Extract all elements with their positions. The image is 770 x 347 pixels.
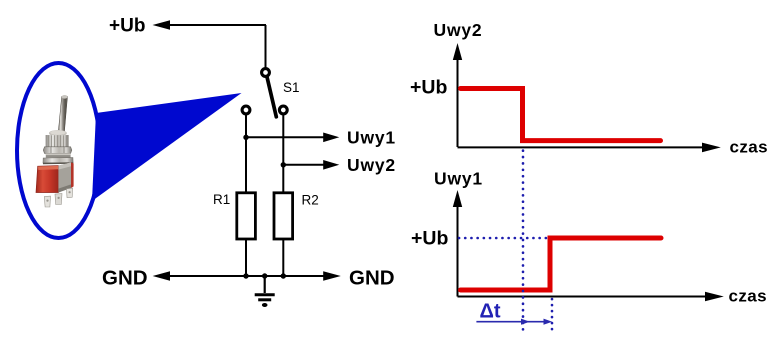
- svg-text:+Ub: +Ub: [410, 77, 447, 99]
- node junction dot GND-center: [262, 273, 267, 278]
- dotted +Ub level line bottom chart: [459, 237, 549, 240]
- dotted timing line t1: [522, 151, 525, 331]
- switch S1 lever: [267, 78, 276, 117]
- wire +Ub feed with arrow: [169, 24, 266, 26]
- red switch body front face: [36, 166, 58, 193]
- node junction dot GND-R1: [243, 273, 248, 278]
- delta-t dimension line with arrows: [476, 321, 549, 323]
- chart Uwy2 red trace: [461, 89, 661, 141]
- switch S1 throw pin right: [279, 106, 287, 114]
- hex nut: [43, 147, 72, 154]
- wire Uwy2 output with arrow: [283, 164, 324, 166]
- resistor R2: [274, 193, 293, 239]
- wire down to switch common: [265, 25, 267, 68]
- chart Uwy1 red trace: [461, 238, 662, 290]
- callout triangle pointer: [92, 93, 242, 201]
- svg-text:GND: GND: [349, 267, 395, 290]
- wire left throw down to R1 and GND rail: [245, 115, 247, 276]
- switch lever: [58, 96, 67, 132]
- resistor R1: [237, 193, 256, 239]
- svg-text:GND: GND: [102, 267, 148, 290]
- svg-text:R2: R2: [302, 193, 319, 208]
- switch pins: [44, 196, 50, 207]
- svg-text:Δt: Δt: [480, 301, 501, 323]
- svg-text:+Ub: +Ub: [411, 228, 448, 250]
- threaded bushing: [46, 135, 69, 147]
- svg-text:Uwy1: Uwy1: [434, 169, 483, 189]
- switch mounting plate: [43, 158, 73, 164]
- switch S1 throw pin left: [242, 106, 250, 114]
- svg-text:Uwy2: Uwy2: [434, 20, 483, 40]
- washer ring: [46, 153, 71, 157]
- node junction dot GND-R2: [281, 273, 286, 278]
- node Uwy1 junction dot: [243, 135, 248, 140]
- GND rail wire with arrows both ends: [169, 275, 324, 277]
- callout ellipse around switch photo: [17, 63, 100, 238]
- switch S1 common pin: [262, 69, 270, 77]
- chart top x-axis: [458, 146, 705, 148]
- wire right throw down to R2 and GND rail: [282, 115, 284, 276]
- svg-text:czas: czas: [730, 138, 768, 157]
- svg-text:S1: S1: [283, 80, 300, 95]
- svg-text:czas: czas: [729, 287, 767, 306]
- lever dome base: [49, 130, 67, 136]
- svg-text:+Ub: +Ub: [109, 16, 145, 37]
- node Uwy2 junction dot: [281, 162, 286, 167]
- wire Uwy1 output with arrow: [246, 136, 324, 138]
- chart bottom y-axis: [457, 205, 459, 297]
- svg-text:R1: R1: [213, 192, 230, 207]
- toggle switch photo: [36, 95, 74, 207]
- chart bottom x-axis: [458, 296, 708, 298]
- ground symbol: [255, 276, 275, 307]
- chart top y-axis: [457, 58, 459, 147]
- red body back edge: [71, 162, 74, 188]
- svg-text:Uwy2: Uwy2: [347, 155, 396, 175]
- switch body metal side face: [58, 162, 71, 192]
- svg-text:Uwy1: Uwy1: [347, 128, 396, 148]
- dotted timing line t2: [551, 299, 554, 330]
